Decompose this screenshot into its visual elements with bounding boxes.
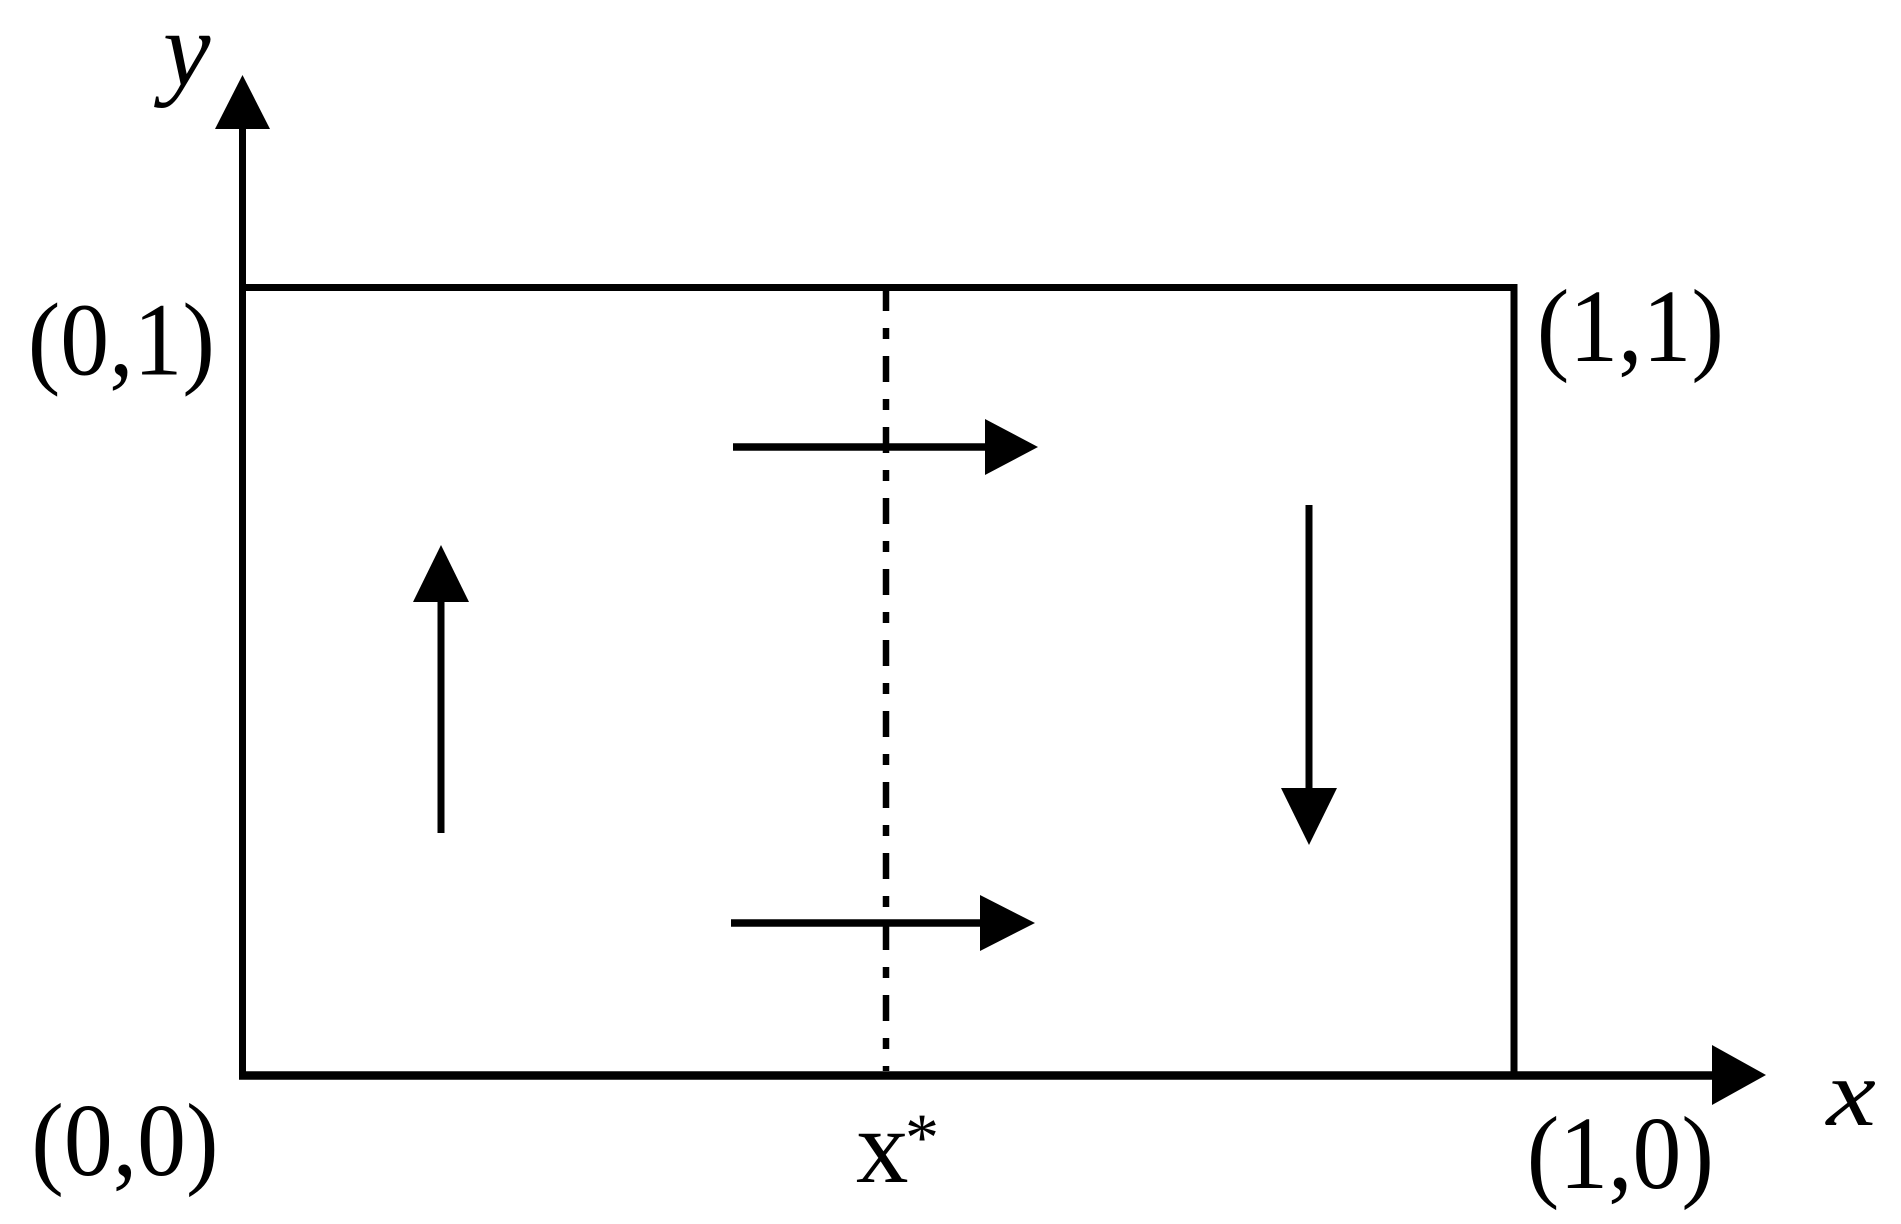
svg-text:(0,1): (0,1) xyxy=(28,282,215,397)
svg-text:y: y xyxy=(154,0,211,109)
svg-text:x: x xyxy=(856,1088,909,1205)
svg-text:x: x xyxy=(1824,1041,1876,1146)
svg-text:*: * xyxy=(905,1099,939,1175)
svg-text:(1,1): (1,1) xyxy=(1537,268,1724,383)
svg-text:(0,0): (0,0) xyxy=(31,1082,218,1197)
svg-text:(1,0): (1,0) xyxy=(1527,1095,1714,1210)
